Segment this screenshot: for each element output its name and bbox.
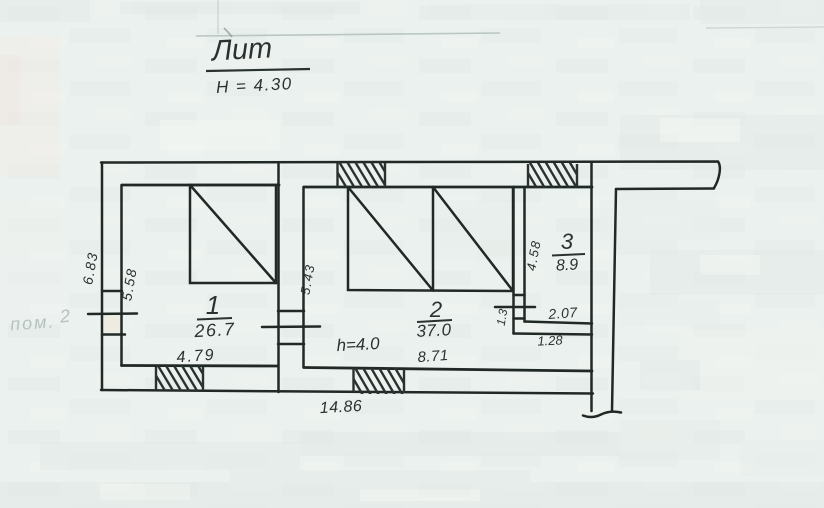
svg-text:8.71: 8.71 bbox=[417, 347, 449, 366]
svg-text:пом.: пом. bbox=[10, 311, 57, 334]
svg-text:Лит: Лит bbox=[209, 32, 273, 67]
svg-text:14.86: 14.86 bbox=[319, 398, 362, 417]
svg-text:2.07: 2.07 bbox=[547, 304, 579, 322]
svg-text:2: 2 bbox=[58, 306, 71, 327]
svg-text:37.0: 37.0 bbox=[416, 320, 452, 341]
svg-text:3: 3 bbox=[561, 229, 574, 254]
svg-text:2: 2 bbox=[429, 297, 442, 322]
svg-text:26.7: 26.7 bbox=[193, 319, 236, 341]
svg-text:H = 4.30: H = 4.30 bbox=[216, 74, 294, 97]
svg-text:h=4.0: h=4.0 bbox=[336, 334, 380, 355]
svg-text:8.9: 8.9 bbox=[556, 256, 579, 274]
svg-text:1.28: 1.28 bbox=[537, 332, 564, 348]
svg-text:1: 1 bbox=[206, 290, 220, 320]
svg-text:1.3: 1.3 bbox=[494, 308, 511, 327]
svg-text:4.79: 4.79 bbox=[176, 347, 216, 367]
